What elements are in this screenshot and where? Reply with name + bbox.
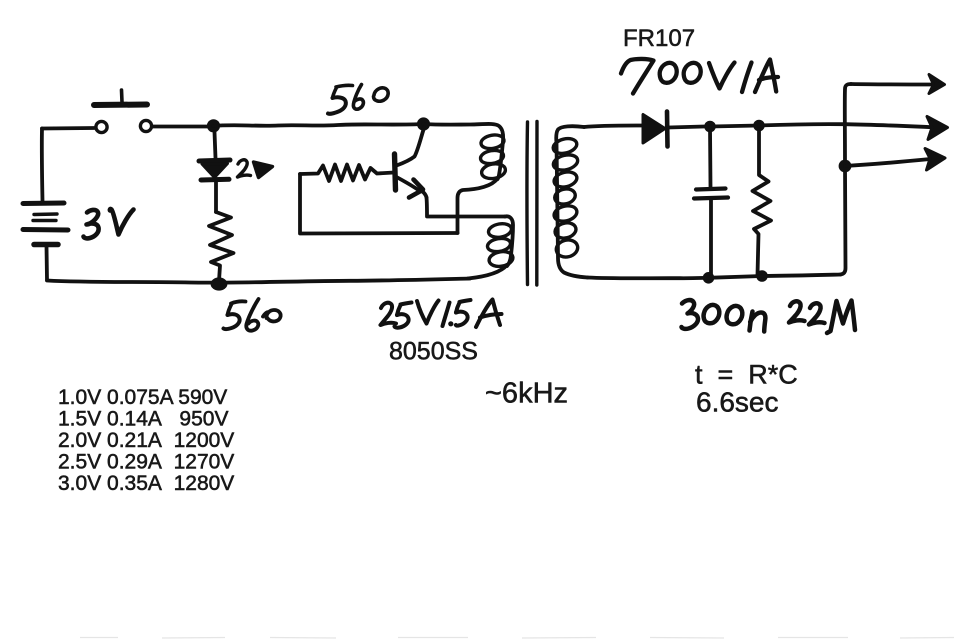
svg-text:~6kHz: ~6kHz [485,378,568,410]
arrow output 3 [845,149,945,171]
resistor R2 (vertical, 560) [209,212,234,281]
label 25V 1.5A [381,300,502,328]
wire: secondary bottom rail [588,275,841,279]
svg-text:t = R*C: t = R*C [695,360,798,390]
label 300n 22M [682,300,856,333]
node D (junction dot) [753,120,765,132]
svg-text:8050SS: 8050SS [389,338,478,366]
wire: left vertical battery to top rail [40,129,45,202]
measurement table [58,386,234,495]
transformer T1 primary lower coil [468,216,514,278]
wire: secondary top to diode [584,126,642,128]
node C (junction dot) [704,121,716,133]
svg-text:1.0V 0.075A 590V: 1.0V 0.075A 590V [58,386,227,409]
junction dot cap bottom [703,272,715,284]
label 560 bottom [224,299,281,331]
junction dot resistor bottom [756,270,768,282]
battery B1 [23,203,68,280]
bottom rail [47,279,470,283]
arrow output 2 [759,117,948,140]
svg-text:6.6sec: 6.6sec [696,387,779,418]
transformer core [527,122,537,286]
label 3V [84,209,134,238]
node B (junction dot) [417,117,430,130]
node A (junction dot) [207,119,220,132]
resistor R3 (22M) [753,126,772,275]
wire: feedback loop (base resistor to upper coil) [300,174,458,234]
capacitor C1 [694,127,728,277]
svg-text:2.5V 0.29A 1270V: 2.5V 0.29A 1270V [58,451,234,474]
resistor R1 (base, 560) [300,165,394,182]
scan edge artifacts (faint) [80,637,954,640]
label 2V (LED scribble) [238,160,273,178]
LED D1 [199,132,230,212]
label 560 top [328,85,388,114]
svg-text:2.0V 0.21A 1200V: 2.0V 0.21A 1200V [58,429,234,452]
svg-text:FR107: FR107 [623,25,695,52]
svg-text:1.5V 0.14A 950V: 1.5V 0.14A 950V [58,408,228,431]
transformer secondary coil [552,126,588,277]
wire: top rail node A to node B [214,124,424,126]
switch S1 [42,90,207,133]
node E (junction dot) [839,160,852,173]
junction blob on bottom rail [211,277,228,290]
transistor Q1 [395,128,427,198]
arrow output 1 [851,75,945,94]
svg-text:3.0V 0.35A 1280V: 3.0V 0.35A 1280V [58,472,234,495]
wire: emitter to lower primary coil [427,198,506,217]
label 700V 1A [621,59,778,94]
wire: output right vertical [841,84,852,275]
wire: node C to node D [710,126,759,127]
transformer T1 primary upper coil [424,124,507,233]
diode D2 [643,112,704,147]
